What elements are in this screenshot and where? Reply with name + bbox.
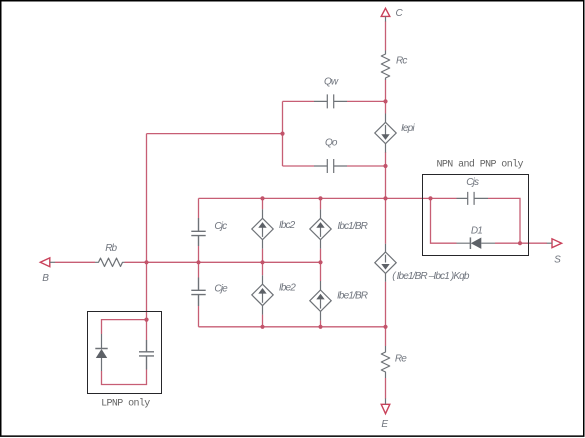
wire: colC B row to Ibe1/BR — [320, 262, 322, 281]
current source Ibc2 — [252, 209, 273, 248]
wire: bottom row — [199, 326, 386, 328]
wire: trunk top row to Kqb source — [385, 198, 387, 243]
wire: trunk junction to Iepi top — [385, 101, 387, 113]
wire: LPNP loop — [102, 320, 147, 385]
capacitor Cje — [191, 278, 205, 307]
svg-text:Cje: Cje — [214, 283, 228, 294]
svg-text:( Ibe1/BR –Ibc1 )Kqb: ( Ibe1/BR –Ibc1 )Kqb — [392, 271, 470, 282]
svg-text:Qo: Qo — [325, 137, 338, 148]
wire: Kqb source to bottom row — [385, 282, 387, 327]
capacitor Qw — [314, 94, 347, 108]
capacitor Cjc — [191, 218, 205, 246]
wire: D1 row right vertical joint — [519, 231, 521, 243]
resistor Rb — [95, 258, 125, 266]
wire: top row from Cjc corner to trunk — [199, 197, 386, 199]
capacitor Cjs — [457, 192, 489, 205]
wire: Qw row left segment — [283, 100, 315, 102]
port arrow S — [552, 239, 562, 248]
wire: S junction to S arrow — [520, 242, 547, 244]
wire: Qw row right segment — [347, 100, 385, 102]
wire: colA B row to Cje — [198, 262, 200, 277]
wire: trunk C arrow to Rc — [385, 21, 387, 50]
current source Ibe1/BR — [310, 281, 331, 320]
wire: loop left vertical — [282, 101, 284, 166]
wire: colA Cje to bottom row — [198, 306, 200, 327]
svg-text:Re: Re — [395, 353, 407, 364]
port arrow E — [381, 404, 390, 413]
wire: colB top row to Ibc2 — [262, 198, 264, 209]
resistor Rc — [381, 51, 389, 81]
wire: left vertical from y133.6 to B row — [146, 134, 148, 263]
svg-text:Cjs: Cjs — [466, 177, 479, 188]
wire: Re to E arrow — [385, 378, 387, 399]
wire: left vertical from B row to LPNP loop — [146, 262, 148, 319]
svg-text:Qw: Qw — [324, 76, 339, 87]
svg-text:Ibe1/BR: Ibe1/BR — [337, 291, 368, 302]
wire: colB Ibc2 to B row — [262, 249, 264, 263]
current source Iepi — [375, 114, 396, 153]
svg-text:Iepi: Iepi — [401, 123, 415, 134]
wire: Qo row right segment — [347, 165, 385, 167]
wire: Qo row left segment — [283, 165, 315, 167]
wire: Iepi bottom to Qo junction — [385, 152, 387, 166]
svg-text:Rb: Rb — [105, 243, 117, 254]
svg-text:Cjc: Cjc — [214, 221, 227, 232]
wire: B arrow to Rb — [55, 261, 95, 263]
diode D1 — [457, 237, 496, 249]
wire: B row colA to colB — [199, 261, 263, 263]
svg-text:Ibc2: Ibc2 — [279, 220, 296, 231]
current source Ibc1/BR — [310, 209, 331, 248]
wire: Rc to Qw junction — [385, 80, 387, 102]
port arrow C — [381, 8, 390, 16]
current source Ibe2 — [252, 275, 273, 314]
svg-text:Ibe2: Ibe2 — [279, 283, 296, 294]
wire: B row from left vertical to colA — [147, 261, 199, 263]
port arrow B — [40, 258, 50, 267]
svg-text:NPN and PNP only: NPN and PNP only — [437, 158, 524, 170]
wire: colA Cjc to B row — [198, 246, 200, 262]
wire: D1 right to S junction — [495, 242, 520, 244]
svg-text:Rc: Rc — [396, 55, 407, 66]
wire: colB B row to Ibe2 — [262, 262, 264, 275]
wire: trunk bottom row to Re — [385, 327, 387, 346]
wire: Rb to left vertical junction — [125, 261, 147, 263]
wire: top row trunk to NPN box — [386, 197, 457, 199]
wire: horizontal into loop at y=133.6 — [147, 133, 283, 135]
wire: B row colB to colC — [263, 261, 321, 263]
diode LPNP — [95, 334, 107, 371]
resistor Re — [381, 346, 389, 378]
svg-text:LPNP only: LPNP only — [101, 398, 150, 410]
capacitor LPNP — [139, 340, 154, 370]
LPNP only box — [88, 312, 162, 394]
wire: colC Ibc1/BR to B row — [320, 249, 322, 263]
wire: trunk Qo junction to top row — [385, 166, 387, 198]
svg-text:Ibc1/BR: Ibc1/BR — [337, 221, 367, 232]
wire: colC top row to Ibc1/BR — [320, 198, 322, 209]
wire: colA top row to Cjc — [198, 198, 200, 218]
wire: colB Ibe2 to bottom row — [262, 315, 264, 327]
wire: colC Ibe1/BR to bottom row — [320, 320, 322, 326]
wire: Cjs right lead to box right corner — [488, 198, 520, 231]
wire: NPN left inner vertical — [431, 198, 457, 243]
capacitor Qo — [314, 159, 347, 173]
NPN and PNP only box — [423, 175, 529, 256]
current source (Ibe1/BR-Ibc1)Kqb — [375, 244, 396, 282]
svg-text:D1: D1 — [471, 226, 482, 237]
